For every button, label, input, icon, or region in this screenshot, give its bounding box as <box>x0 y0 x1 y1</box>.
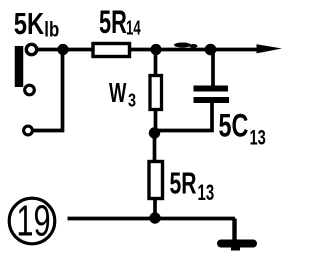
svg-text:13: 13 <box>250 124 266 149</box>
wire W3 to node D <box>154 110 158 134</box>
switch contact middle <box>25 85 35 95</box>
node D junction <box>149 127 160 138</box>
switch contact bottom <box>24 126 33 135</box>
node E junction <box>149 212 160 223</box>
capacitor 5C13 bottom plate <box>194 97 230 103</box>
svg-text:19: 19 <box>16 197 50 246</box>
capacitor 5C13 top plate <box>194 86 229 92</box>
svg-text:5R: 5R <box>170 165 197 200</box>
node A junction <box>57 44 68 55</box>
wire capacitor top to node C <box>211 50 215 86</box>
svg-text:13: 13 <box>198 180 215 205</box>
wire node B to W3 <box>154 50 158 77</box>
svg-text:5K: 5K <box>14 6 45 41</box>
resistor 5R13 <box>149 162 163 199</box>
wire node D to capacitor bottom <box>155 100 213 131</box>
svg-text:14: 14 <box>126 17 141 39</box>
resistor 5R14 <box>93 44 130 57</box>
wire from node A down to bottom contact <box>34 50 63 131</box>
switch contact top <box>26 44 36 54</box>
node B junction <box>150 44 161 55</box>
switch 5K1b blade <box>15 46 24 87</box>
node C junction <box>205 44 217 56</box>
wire bottom horizontal <box>68 217 236 221</box>
wire node D to 5R13 <box>153 133 157 162</box>
svg-text:W: W <box>109 77 127 108</box>
ground <box>221 240 253 248</box>
svg-text:3: 3 <box>128 90 136 111</box>
arrow head <box>257 44 283 53</box>
svg-text:lb: lb <box>44 19 59 42</box>
node 19 circle <box>9 198 55 244</box>
wire top main <box>37 48 259 52</box>
svg-text:5C: 5C <box>219 108 249 143</box>
smudge mark on wire <box>174 43 191 48</box>
resistor W3 <box>150 76 162 110</box>
svg-text:5R: 5R <box>99 4 127 40</box>
wire 5R13 to node E <box>153 198 157 219</box>
wire down to ground <box>232 219 236 243</box>
